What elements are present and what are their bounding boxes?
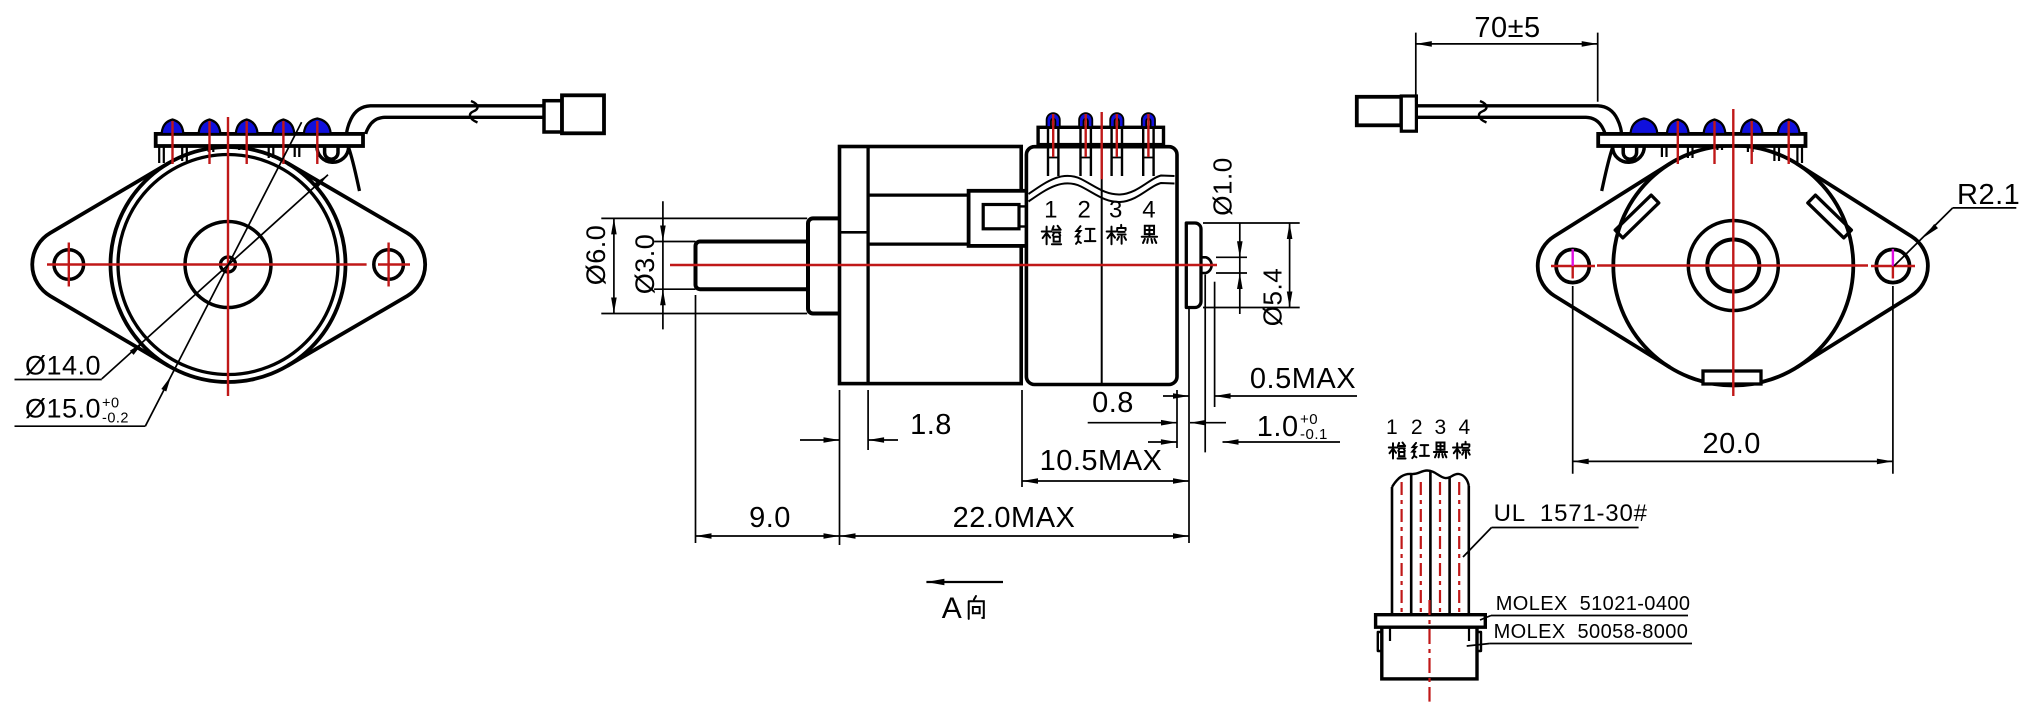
dim dia3.0: extension lines bbox=[654, 241, 695, 243]
detail: housing latch marks bbox=[1389, 627, 1391, 641]
left view: connector ferrule bbox=[544, 101, 562, 132]
side view: tongue inner connector lines bbox=[1019, 205, 1028, 207]
left view: blue wire domes on bar bbox=[162, 120, 184, 135]
right view: left ear crosshair horizontal red bbox=[1551, 265, 1595, 267]
left view: cable upper line bbox=[347, 106, 545, 134]
dim dia5.4: extension lines bbox=[1203, 222, 1300, 224]
right view: red vertical lines under domes bbox=[1677, 121, 1679, 164]
left view: terminal bar bbox=[156, 134, 363, 146]
dim 70+-5: extension lines bbox=[1415, 33, 1417, 102]
left view: center shaft hole bbox=[221, 257, 236, 272]
label R2.1 leader line bbox=[1894, 208, 1953, 266]
svg-text:4: 4 bbox=[1142, 197, 1156, 224]
svg-text:20.0: 20.0 bbox=[1702, 428, 1760, 460]
detail: assembly red dash-dot centerline bbox=[1428, 600, 1430, 702]
svg-text:4: 4 bbox=[1459, 416, 1471, 439]
dim 9.0: dimension line bbox=[696, 535, 840, 537]
detail: wire bundle wavy top bbox=[1392, 471, 1469, 488]
left view: cable length break symbol bbox=[470, 101, 478, 123]
left view: red horizontal centerline bbox=[47, 263, 367, 265]
dim 20.0: dimension line bbox=[1573, 460, 1893, 462]
side view: rear pivot pin bbox=[1201, 257, 1212, 273]
extension lines below side view bbox=[695, 295, 697, 543]
right view: right ear of flange bbox=[1797, 164, 1928, 368]
right view: blue wire domes on bar bbox=[1630, 119, 1657, 135]
detail: housing side bumps bbox=[1378, 632, 1382, 651]
svg-text:1: 1 bbox=[1386, 416, 1398, 439]
left view: clip tab edge to circle bbox=[349, 148, 360, 192]
dim 1.0 +0/-0.1: dimension line bbox=[1148, 441, 1177, 443]
svg-text:2: 2 bbox=[1077, 197, 1091, 224]
detail: connector flange bbox=[1376, 615, 1486, 628]
svg-text:Ø14.0: Ø14.0 bbox=[25, 351, 101, 381]
dim 10.5MAX: dimension line bbox=[1022, 480, 1189, 482]
svg-text:3: 3 bbox=[1435, 416, 1447, 439]
left view: cable clip tab with U hole bbox=[317, 146, 349, 162]
left view: right ear red crosshair vertical bbox=[387, 243, 389, 287]
svg-text:-0.1: -0.1 bbox=[1300, 426, 1328, 443]
side view: motor can body bbox=[1026, 147, 1177, 385]
dim 70+-5: dimension line bbox=[1416, 43, 1598, 45]
side view: motor tongue inner slot bbox=[983, 205, 1019, 229]
left view: dia14 leader arrowhead upper-right bbox=[314, 175, 328, 188]
label MOLEX 50058-8000 underline and leader bbox=[1490, 643, 1692, 645]
svg-text:0.5MAX: 0.5MAX bbox=[1250, 363, 1356, 395]
svg-text:Ø1.0: Ø1.0 bbox=[1208, 157, 1238, 215]
svg-text:UL 1571-30#: UL 1571-30# bbox=[1494, 500, 1648, 527]
side view: gearbox recess top line bbox=[868, 193, 969, 196]
right view: top-right vent slot bbox=[1808, 195, 1852, 238]
left view: left ear red crosshair vertical bbox=[68, 243, 70, 287]
svg-text:Ø3.0: Ø3.0 bbox=[630, 234, 660, 295]
side view: terminal bar on can bbox=[1038, 127, 1163, 144]
left view: red vertical centerline bbox=[227, 117, 229, 396]
svg-text:Ø5.4: Ø5.4 bbox=[1258, 268, 1288, 326]
right view: clip tab edge to circle bbox=[1602, 148, 1613, 192]
left view: right ear of flange bbox=[288, 163, 425, 365]
right view: cable clip tab with U hole bbox=[1613, 146, 1645, 162]
right view: connector body bbox=[1357, 97, 1402, 126]
left view: cable lower line bbox=[366, 117, 544, 134]
label R2.1 underline bbox=[1953, 207, 2017, 209]
right view: red vertical centerline bbox=[1732, 109, 1734, 396]
svg-text:22.0MAX: 22.0MAX bbox=[953, 502, 1076, 534]
svg-text:A: A bbox=[942, 592, 963, 625]
left view: right ear red crosshair horizontal bbox=[378, 263, 410, 265]
left view: right ear mounting hole bbox=[374, 250, 404, 280]
svg-text:Ø15.0: Ø15.0 bbox=[25, 394, 101, 424]
svg-text:9.0: 9.0 bbox=[749, 502, 791, 534]
side view: break wave line lower bbox=[1029, 183, 1175, 202]
right view: cable upper line bbox=[1416, 106, 1621, 134]
side view: pin legs through bar into can bbox=[1048, 122, 1058, 176]
left view: dia15 leader arrowhead at outer circle bbox=[161, 376, 171, 392]
right view: top-left vent slot bbox=[1615, 195, 1659, 238]
left view: inner circle dia 14.0 bbox=[118, 155, 338, 375]
dim 0.8: dimension line bbox=[1088, 422, 1177, 424]
side view: rear boss bbox=[1186, 223, 1201, 308]
svg-text:0.8: 0.8 bbox=[1092, 387, 1134, 419]
right view: terminal bar bbox=[1598, 134, 1805, 146]
right view: rear hub circle bbox=[1688, 221, 1778, 311]
dim 0.5MAX: dimension line bbox=[1163, 395, 1189, 397]
right view: right ear crosshair horizontal red bbox=[1871, 265, 1915, 267]
right view: cable lower line bbox=[1416, 117, 1605, 134]
left view: dia15 leader line through center bbox=[145, 122, 301, 426]
dim dia3.0: dimension line with outside arrows bbox=[662, 201, 664, 329]
svg-text:1.0: 1.0 bbox=[1257, 411, 1299, 443]
label UL 1571-30# underline and leader bbox=[1492, 527, 1639, 529]
left view: label dia 15.0 underline bbox=[15, 425, 146, 427]
right view: motor rear outer circle bbox=[1613, 146, 1853, 386]
side view: motor can seam line bbox=[1101, 148, 1103, 383]
right view: left ear of flange bbox=[1538, 164, 1670, 368]
left view: label dia 14.0 underline bbox=[15, 379, 102, 381]
side view: blue terminal pin caps bbox=[1047, 113, 1060, 127]
side view: gearbox body bbox=[840, 147, 1022, 384]
right view: right ear crosshair vertical magenta bbox=[1892, 249, 1894, 266]
left view: hub circle bbox=[185, 222, 271, 308]
left view: left ear mounting hole bbox=[54, 250, 84, 280]
right view: left ear mounting hole bbox=[1556, 249, 1589, 282]
left view: dia14 leader arrowhead at circle lower-left bbox=[130, 342, 144, 355]
right view: comb teeth below terminal bar bbox=[1797, 146, 1802, 163]
svg-text:3: 3 bbox=[1109, 197, 1123, 224]
dim dia1.0: extension ticks at pin bbox=[1216, 256, 1247, 258]
side view: gearbox front plate step line bbox=[866, 147, 869, 384]
right view: bottom slot bbox=[1703, 371, 1761, 384]
right view: cable break symbol bbox=[1479, 101, 1487, 123]
svg-text:1: 1 bbox=[1044, 197, 1058, 224]
dim dia5.4: dimension line bbox=[1289, 223, 1291, 308]
detail: wire red dash-dot centerlines bbox=[1400, 482, 1402, 612]
dim 22.0MAX: dimension line bbox=[840, 535, 1190, 537]
left view: red vertical lines under domes bbox=[171, 121, 173, 164]
side view: wire colour chinese labels cheng hong zong hei bbox=[1042, 226, 1061, 244]
side view: red vertical centerline short bbox=[1100, 112, 1102, 179]
label MOLEX 51021-0400 underline and leader bbox=[1491, 615, 1688, 617]
svg-text:Ø6.0: Ø6.0 bbox=[581, 225, 611, 286]
svg-text:R2.1: R2.1 bbox=[1957, 179, 2020, 211]
svg-text:+0: +0 bbox=[102, 396, 120, 412]
left view: outer circle dia 15.0 bbox=[111, 147, 346, 382]
right view: rear bearing circle bbox=[1707, 240, 1759, 292]
side view: red horizontal centerline bbox=[670, 264, 1217, 266]
left view: connector body bbox=[562, 95, 604, 133]
right view: red horizontal centerline bbox=[1597, 264, 1868, 266]
side view: break wave line upper bbox=[1029, 176, 1175, 195]
right view: left ear crosshair vertical magenta bbox=[1571, 249, 1573, 266]
left view: dia14 leader line through center bbox=[102, 175, 328, 379]
svg-text:MOLEX 50058-8000: MOLEX 50058-8000 bbox=[1494, 621, 1689, 643]
right view: connector ferrule bbox=[1401, 96, 1416, 131]
svg-text:1.8: 1.8 bbox=[910, 409, 952, 441]
side view: motor tongue outer bbox=[969, 191, 1028, 246]
dim dia1.0: dimension line bbox=[1239, 223, 1241, 314]
dim 1.8: dimension line with outside arrows bbox=[800, 439, 840, 441]
detail: wire bundle black lines bbox=[1391, 487, 1394, 615]
svg-text:2: 2 bbox=[1411, 416, 1423, 439]
side view: front plate bore line bbox=[841, 231, 868, 234]
side view: output shaft dia 3 bbox=[696, 242, 809, 290]
left view: comb teeth below terminal bar bbox=[159, 146, 164, 163]
svg-text:MOLEX 51021-0400: MOLEX 51021-0400 bbox=[1496, 593, 1691, 615]
dim dia6.0: dimension line with arrows bbox=[613, 218, 615, 313]
dim 20.0: extension lines from ear holes bbox=[1572, 286, 1574, 474]
view direction arrow A bbox=[926, 581, 1003, 583]
right view: right ear mounting hole bbox=[1876, 249, 1909, 282]
detail: connector housing body bbox=[1382, 627, 1477, 679]
side view: gearbox recess bottom line bbox=[868, 242, 969, 245]
dim dia6.0: extension lines bbox=[601, 217, 807, 219]
svg-text:10.5MAX: 10.5MAX bbox=[1040, 445, 1163, 477]
detail: wire colours chinese cheng hong hei zong bbox=[1389, 443, 1406, 459]
left view (A-direction): motor front outline flange bbox=[32, 163, 168, 365]
svg-text:70±5: 70±5 bbox=[1474, 12, 1540, 44]
side view: shaft collar dia 6 bbox=[808, 218, 840, 313]
svg-text:-0.2: -0.2 bbox=[102, 411, 129, 427]
side view: red pin centerlines bbox=[1052, 114, 1054, 157]
